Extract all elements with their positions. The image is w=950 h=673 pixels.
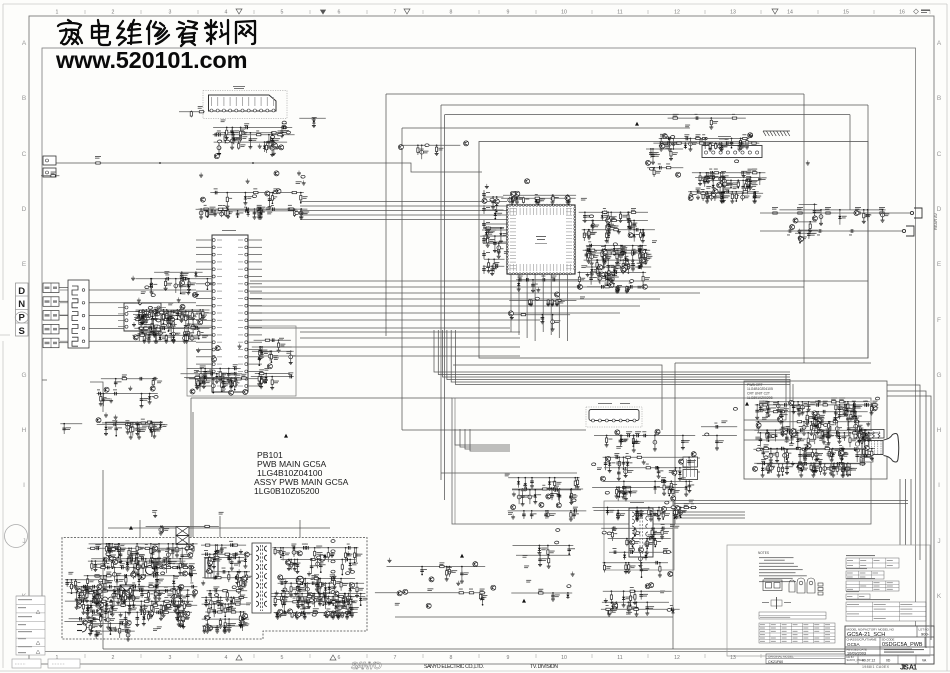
svg-text:2: 2: [112, 655, 115, 661]
wire: [616, 287, 618, 291]
capacitor C229: [703, 179, 707, 185]
wire junction: [605, 260, 607, 262]
ground: [808, 228, 812, 233]
value label: [721, 145, 726, 148]
diode D116: [641, 248, 644, 254]
value label: [762, 177, 767, 180]
capacitor C217: [753, 193, 757, 199]
value label: [485, 228, 490, 231]
resistor R253: [162, 313, 164, 320]
value label: [752, 181, 757, 184]
capacitor C105: [482, 222, 486, 228]
value label: [660, 134, 666, 137]
value label: [136, 315, 141, 318]
value label: [183, 314, 188, 317]
wire: [518, 274, 520, 335]
wire: [300, 214, 507, 216]
wire: [867, 210, 869, 221]
wire: [483, 190, 485, 199]
value label: [604, 253, 609, 256]
transistor Q130: [646, 160, 651, 165]
wire: [721, 193, 723, 201]
wire: [532, 280, 534, 291]
svg-text:11: 11: [617, 10, 622, 16]
options tables: [846, 555, 899, 568]
wire: [159, 335, 161, 341]
capacitor C185: [606, 276, 610, 282]
wire: [186, 377, 246, 379]
capacitor C219: [711, 190, 717, 194]
power supply hot area dashed boundary: [62, 538, 367, 640]
transistor Q119: [628, 233, 633, 238]
wire junction: [496, 211, 498, 213]
transistor Q116: [641, 249, 646, 254]
value label: [825, 207, 831, 210]
capacitor C154: [583, 213, 587, 219]
wire: [386, 93, 804, 95]
wire: [551, 301, 553, 304]
wire junction: [740, 138, 742, 140]
transistor Q114: [642, 284, 647, 289]
ground: [497, 254, 501, 259]
wire junction: [628, 226, 630, 228]
ground: [797, 229, 801, 234]
value label: [608, 253, 612, 256]
test point TP30: [151, 294, 155, 297]
value label: [495, 199, 499, 202]
wire: [608, 221, 610, 233]
wire: [132, 334, 211, 336]
wire: [196, 378, 212, 380]
ground: [246, 179, 250, 184]
wire: [59, 287, 68, 289]
capacitor C280: [142, 331, 146, 337]
wire junction: [179, 309, 181, 311]
wire junction: [300, 192, 302, 194]
wire: [190, 112, 192, 116]
value label: [205, 311, 209, 314]
wire: [668, 139, 670, 150]
value label: [725, 174, 729, 177]
wire: [139, 520, 141, 537]
sheet number mark top right: [914, 9, 931, 14]
wire: [460, 429, 510, 447]
wire: [613, 246, 615, 254]
value label: [169, 315, 174, 318]
ground: [806, 160, 810, 165]
wire: [617, 250, 619, 260]
wire junction: [652, 148, 654, 150]
wire junction: [170, 327, 172, 329]
wire junction: [660, 142, 662, 144]
value label: [266, 207, 271, 210]
resistor R161: [588, 230, 590, 237]
value label: [217, 212, 221, 215]
wire junction: [640, 259, 642, 261]
ground: [289, 360, 293, 365]
wire: [605, 250, 607, 261]
resistor R204: [741, 137, 748, 139]
capacitor C109: [249, 137, 253, 143]
wire: [138, 312, 140, 325]
wire: [674, 517, 745, 519]
value label: [303, 212, 308, 215]
wire junction: [721, 192, 723, 194]
svg-text:I: I: [938, 482, 940, 489]
wire: [140, 320, 142, 328]
wire junction: [723, 192, 725, 194]
capacitor C148: [535, 197, 539, 203]
value label: [643, 262, 647, 265]
ground: [137, 298, 141, 303]
ground: [625, 289, 629, 294]
capacitor C134: [213, 191, 219, 195]
resistor R224: [713, 172, 720, 174]
capacitor C288: [270, 338, 276, 342]
value label: [262, 350, 267, 353]
resistor R217: [702, 193, 704, 200]
resistor R150: [632, 249, 634, 256]
wire: [483, 265, 485, 274]
test point TP25: [735, 160, 739, 163]
wire: [568, 198, 570, 202]
test point TP16: [295, 212, 299, 215]
value label: [303, 196, 308, 199]
wire: [612, 272, 614, 283]
value label: [726, 183, 731, 186]
wire junction: [143, 327, 145, 329]
value label: [707, 142, 713, 145]
capacitor C250: [866, 212, 870, 218]
wire: [196, 370, 212, 372]
capacitor C230: [710, 176, 716, 180]
wire: [485, 227, 487, 239]
wire junction: [216, 373, 218, 375]
capacitor C245: [657, 166, 663, 170]
svg-text:C: C: [22, 151, 27, 158]
capacitor C178: [632, 222, 636, 228]
wire: [294, 209, 296, 217]
resistor R279: [222, 375, 224, 382]
ground: [172, 339, 176, 344]
wire junction: [532, 279, 534, 281]
wire junction: [547, 300, 549, 302]
wire: [484, 209, 504, 211]
wire junction: [156, 327, 158, 329]
wire junction: [168, 319, 170, 321]
wire junction: [271, 376, 273, 378]
wire junction: [523, 197, 525, 199]
wire junction: [612, 272, 614, 274]
value label: [630, 265, 635, 268]
value label: [156, 332, 161, 335]
value label: [194, 337, 199, 340]
wire: [143, 335, 145, 341]
wire: [149, 328, 151, 340]
value label: [802, 237, 807, 240]
wire: [622, 267, 624, 274]
svg-text:B: B: [937, 95, 941, 102]
value label: [671, 142, 676, 145]
capacitor C117: [216, 133, 222, 137]
wire: [483, 227, 504, 229]
value label: [592, 251, 597, 254]
electrolytic capacitor C142: [497, 244, 501, 251]
ground: [150, 290, 154, 295]
svg-text:A: A: [22, 40, 27, 47]
value label: [538, 199, 543, 202]
ground: [183, 339, 187, 344]
wire junction: [614, 266, 616, 268]
wire junction: [556, 300, 558, 302]
microcontroller IC301 QFP: [506, 204, 576, 275]
wire: [271, 193, 273, 204]
ground: [659, 147, 663, 152]
wire: [803, 94, 805, 363]
resistor R235: [181, 313, 183, 320]
wire junction: [706, 180, 708, 182]
value label: [261, 356, 264, 359]
connector CRT board pins: [683, 457, 698, 480]
value label: [594, 225, 599, 228]
wire junction: [260, 376, 262, 378]
wire: [688, 191, 759, 193]
wire junction: [814, 204, 816, 206]
value label: [725, 138, 728, 141]
ground: [590, 272, 594, 277]
wire junction: [641, 245, 643, 247]
value label: [609, 225, 613, 228]
ground: [722, 189, 726, 194]
ground: [567, 200, 571, 205]
wire junction: [163, 323, 165, 325]
ground: [619, 218, 623, 223]
wire: [529, 301, 531, 304]
capacitor C220: [725, 190, 731, 194]
wire junction: [250, 132, 252, 134]
transistor Q136: [790, 225, 795, 230]
switching transformer T651: [252, 543, 271, 613]
wire: [582, 229, 655, 231]
value label: [244, 123, 249, 126]
electrolytic capacitor C279: [158, 330, 162, 337]
wire junction: [166, 309, 168, 311]
wire: [255, 373, 290, 375]
resistor R282: [194, 378, 201, 380]
wire: [550, 274, 552, 335]
value label: [591, 232, 597, 235]
ground: [742, 173, 746, 178]
resistor R274: [260, 378, 262, 385]
value label: [274, 357, 279, 360]
ground: [248, 144, 252, 149]
wire: [799, 203, 818, 205]
notes section box: [727, 545, 930, 656]
wire junction: [496, 196, 498, 198]
svg-text:1988/1 CA0EX: 1988/1 CA0EX: [862, 665, 890, 669]
wire junction: [552, 194, 554, 196]
resistor R198: [556, 299, 558, 306]
diode D132: [720, 143, 723, 149]
test point TP18: [589, 215, 593, 218]
wire: [552, 195, 554, 202]
wire junction: [627, 211, 629, 213]
wire: [650, 149, 652, 158]
wire: [707, 173, 709, 182]
value label: [581, 198, 587, 201]
capacitor C259: [182, 277, 188, 281]
value label: [202, 336, 208, 339]
test point TP22: [535, 297, 539, 300]
wire junction: [616, 286, 618, 288]
electrolytic capacitor C277: [172, 331, 176, 338]
wire: [617, 287, 619, 291]
wire junction: [591, 220, 593, 222]
resistor R170: [596, 261, 598, 268]
value label: [554, 196, 557, 199]
transistor Q139: [180, 304, 185, 309]
ground: [586, 272, 590, 277]
wire: [646, 148, 683, 150]
test point TP10: [225, 140, 229, 143]
wire: [179, 310, 181, 318]
wire: [300, 331, 520, 333]
wire junction: [730, 187, 732, 189]
wire: [191, 397, 452, 399]
wire: [640, 260, 642, 269]
ground: [154, 316, 158, 321]
wire: [731, 139, 733, 148]
resistor R201: [746, 139, 748, 146]
value label: [605, 283, 610, 286]
wire junction: [486, 227, 488, 229]
value label: [180, 307, 185, 310]
capacitor C141: [487, 228, 491, 234]
ground: [259, 384, 263, 389]
wire junction: [512, 201, 514, 203]
wire: [628, 212, 630, 227]
ground: [644, 259, 648, 264]
wire: [607, 212, 609, 224]
wire junction: [167, 311, 169, 313]
wire: [248, 378, 262, 380]
warning triangle: [796, 464, 800, 468]
value label: [188, 317, 194, 320]
value label: [244, 206, 247, 209]
svg-text:B: B: [22, 95, 26, 102]
resistor R142: [487, 237, 489, 244]
value label: [580, 297, 585, 300]
ground: [493, 248, 497, 253]
warning triangle: [109, 599, 113, 603]
wire: [252, 350, 294, 352]
wire junction: [735, 191, 737, 193]
value label: [632, 223, 637, 226]
wire: [138, 327, 200, 329]
wire: [199, 310, 201, 322]
wire: [196, 254, 212, 256]
value label: [262, 211, 265, 214]
ground: [708, 147, 712, 152]
value label: [664, 136, 669, 139]
wire junction: [278, 339, 280, 341]
wire: [299, 520, 301, 537]
test point TP15: [252, 195, 256, 198]
capacitor C209: [739, 143, 743, 149]
wire: [483, 250, 485, 259]
wire: [602, 250, 604, 265]
wire: [185, 335, 187, 341]
wire junction: [605, 272, 607, 274]
ground: [150, 329, 154, 334]
capacitor C172: [624, 258, 630, 262]
capacitor C168: [615, 286, 619, 292]
wire: [482, 235, 507, 237]
resistor R277: [258, 375, 260, 382]
wire junction: [645, 249, 647, 251]
value label: [224, 384, 229, 387]
test point TP1: [331, 540, 335, 543]
wire: [231, 128, 233, 137]
ground: [696, 195, 700, 200]
resistor R228: [670, 150, 672, 157]
capacitor C231: [722, 182, 726, 188]
wire: [196, 341, 212, 343]
value label: [584, 233, 589, 236]
wire junction: [138, 311, 140, 313]
resistor R153: [630, 211, 637, 213]
svg-text:REAR AV: REAR AV: [933, 213, 938, 230]
wire: [500, 228, 502, 241]
ground: [143, 318, 147, 323]
wire junction: [151, 319, 153, 321]
warning triangle: [102, 558, 106, 562]
resistor R155: [619, 213, 621, 220]
connector CN64: [43, 338, 59, 348]
ground: [517, 287, 521, 292]
diode D140: [838, 214, 841, 220]
wire junction: [511, 194, 513, 196]
wire junction: [642, 249, 644, 251]
transistor Q107: [494, 199, 499, 204]
wire junction: [731, 147, 733, 149]
diode D145: [151, 314, 154, 320]
wire junction: [153, 319, 155, 321]
capacitor C244: [651, 153, 655, 159]
ground: [745, 144, 749, 149]
electrolytic capacitor C133: [199, 210, 203, 217]
value label: [274, 381, 279, 384]
diode D125: [608, 222, 611, 228]
capacitor C104: [482, 207, 486, 213]
wire junction: [742, 142, 744, 144]
value label: [217, 130, 221, 133]
wire: [542, 274, 544, 332]
resistor R122: [203, 208, 210, 210]
resistor R189: [597, 267, 599, 274]
capacitor C287: [180, 272, 184, 278]
value label: [746, 176, 751, 179]
value label: [726, 179, 729, 182]
resistor R172: [603, 254, 605, 261]
ground: [602, 264, 606, 269]
wire junction: [614, 274, 616, 276]
wire junction: [169, 319, 171, 321]
value label: [642, 255, 647, 258]
wire: [482, 241, 507, 243]
wire: [188, 279, 190, 290]
wire: [607, 230, 609, 244]
